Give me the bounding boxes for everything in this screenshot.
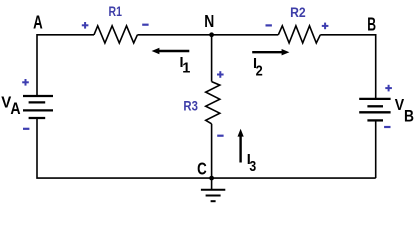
resistor R3 (206, 82, 220, 124)
svg-text:C: C (197, 158, 207, 178)
battery VB (359, 99, 390, 121)
wire R3 to node C (211, 124, 213, 178)
polarity - of R3 (217, 135, 223, 137)
wire R2 to node B corner, down right rail (320, 35, 375, 99)
wire node N down to R3 (211, 35, 213, 82)
wire R1 to R2 through node N (137, 34, 278, 36)
svg-text:N: N (204, 11, 214, 31)
polarity + of VB (385, 85, 392, 92)
ground (201, 178, 225, 201)
polarity + of R2 (322, 23, 329, 30)
svg-text:1: 1 (182, 61, 190, 77)
svg-text:A: A (10, 100, 20, 118)
svg-text:2: 2 (256, 63, 263, 80)
resistor R2 (278, 26, 320, 43)
svg-text:A: A (33, 13, 43, 33)
svg-text:B: B (367, 15, 376, 35)
svg-text:B: B (404, 108, 414, 126)
polarity - of VA (23, 128, 29, 130)
wire node A corner: left rail top to R1 (37, 35, 94, 96)
node C junction dot (209, 176, 214, 181)
current arrow I3 (238, 129, 244, 163)
polarity + of R3 (217, 71, 224, 78)
polarity - of R2 (266, 24, 272, 26)
svg-text:R1: R1 (109, 3, 123, 19)
polarity - of R1 (142, 24, 148, 26)
battery VA (23, 96, 53, 118)
current arrow I1 (152, 48, 190, 54)
polarity - of VB (384, 126, 390, 128)
wire right rail below battery VB (375, 120, 377, 178)
svg-text:R2: R2 (290, 4, 306, 20)
current arrow I2 (252, 49, 289, 55)
svg-text:3: 3 (249, 158, 256, 175)
resistor R1 (94, 26, 137, 43)
svg-text:R3: R3 (183, 97, 198, 113)
node N junction dot (209, 32, 214, 37)
polarity + of VA (22, 79, 29, 86)
wire bottom rail (37, 118, 376, 178)
polarity + of R1 (82, 22, 89, 29)
